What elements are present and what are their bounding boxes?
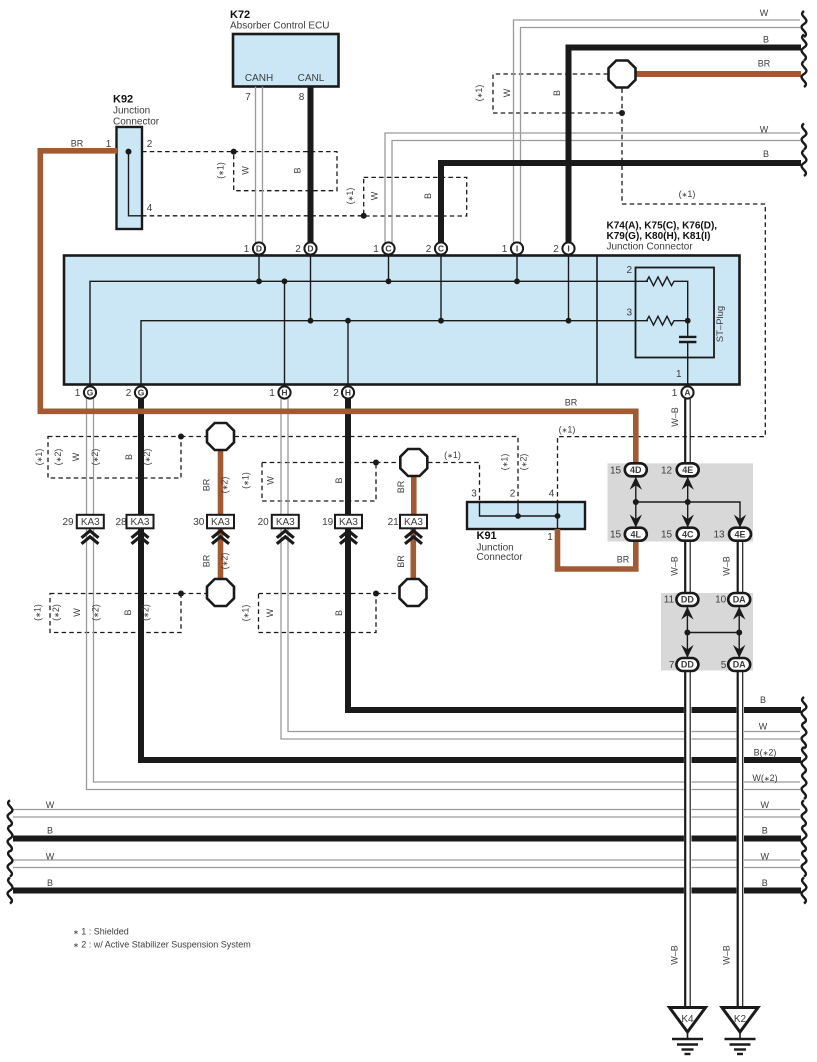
svg-text:(∗2): (∗2) [90, 449, 100, 466]
svg-text:20: 20 [258, 517, 270, 528]
shield dashed line from K92 pin 2 [142, 151, 234, 153]
svg-text:B: B [334, 477, 344, 483]
svg-text:3: 3 [626, 308, 632, 319]
svg-text:K92: K92 [113, 94, 133, 106]
svg-text:1: 1 [672, 388, 678, 399]
label rotated shield box I wires [474, 85, 562, 102]
svg-text:3: 3 [471, 489, 477, 500]
svg-text:15: 15 [610, 465, 622, 476]
svg-text:W–B: W–B [722, 945, 732, 965]
svg-text:2: 2 [126, 388, 132, 399]
svg-text:B: B [123, 609, 133, 615]
svg-text:W: W [46, 800, 55, 810]
svg-text:A: A [684, 388, 690, 398]
svg-text:B: B [763, 149, 769, 159]
svg-text:(∗1): (∗1) [34, 449, 44, 466]
ECU K72 Absorber Control ECU [233, 34, 339, 87]
chevron arrows below KA3 connectors [82, 531, 423, 544]
svg-text:2: 2 [553, 244, 559, 255]
svg-text:B: B [47, 878, 53, 888]
label rotated G upper box [34, 449, 152, 466]
svg-text:19: 19 [322, 517, 334, 528]
svg-text:B: B [762, 826, 768, 836]
svg-text:1: 1 [75, 388, 81, 399]
svg-text:W–B: W–B [670, 556, 680, 576]
svg-text:DA: DA [733, 595, 746, 605]
svg-text:(∗2): (∗2) [51, 604, 61, 621]
svg-text:Junction Connector: Junction Connector [607, 242, 694, 253]
pin stub H2 [347, 321, 349, 387]
wire B from 2H down to B bus right edge [348, 399, 801, 710]
svg-text:(∗1): (∗1) [33, 604, 43, 621]
wire W-B from 1A to 4E(12) [685, 399, 690, 463]
svg-text:11: 11 [664, 595, 675, 606]
wire B from 2C to right edge [441, 163, 801, 243]
svg-text:BR: BR [202, 478, 212, 491]
wire BR octagon to 21 KA3 [411, 477, 417, 516]
terminal ovals DD DA [676, 593, 750, 671]
wire BR main from K92 pin1 around left and to 4D [40, 151, 636, 464]
wire B from 2I to right edge [569, 48, 802, 243]
svg-text:G: G [87, 388, 94, 398]
svg-text:B: B [762, 878, 768, 888]
bottom bus B left to right [13, 836, 801, 842]
svg-text:BR: BR [617, 555, 630, 565]
svg-text:(∗2): (∗2) [141, 604, 151, 621]
arrow up into 11 DD [681, 607, 693, 620]
shield dashed box around CANH/CANL wires (*1) [234, 152, 337, 191]
capacitor of ST-Plug [687, 321, 689, 336]
shield octagon H lower [400, 579, 427, 606]
arrow up into 4D [630, 477, 642, 490]
wire inside K92 pin1/2 to pin4 [129, 152, 143, 216]
shield octagon top right [609, 61, 636, 88]
junction connector K92 [117, 127, 143, 229]
ground K2 [722, 1008, 758, 1055]
svg-text:30: 30 [193, 517, 205, 528]
svg-text:4L: 4L [631, 529, 642, 539]
wire B from 2G down to B(*2) bus right edge [141, 399, 801, 761]
wire W CANH K72 pin7 to 1D [256, 87, 263, 243]
svg-text:1: 1 [269, 388, 275, 399]
svg-text:(∗1): (∗1) [241, 605, 251, 622]
label rotated shield box C wires [345, 188, 433, 205]
pin stub I2 [568, 255, 570, 321]
svg-text:21: 21 [388, 517, 400, 528]
svg-text:KA3: KA3 [211, 517, 230, 528]
pin stub D2 [310, 255, 312, 321]
K91 internal wires pins 3,2,4 to 1 [480, 502, 558, 529]
svg-text:DD: DD [681, 660, 694, 670]
label bottom pin numbers [75, 388, 678, 399]
wire W from 1H down to W bus right edge [281, 399, 800, 739]
shield drain dashed path from octagon to K91 pin 4 [558, 89, 766, 503]
arrow down into 4E(13) [734, 515, 746, 528]
shield octagon G lower [207, 579, 234, 606]
svg-text:1: 1 [547, 532, 553, 543]
svg-text:B: B [124, 454, 134, 460]
shield dashed box around H-pin wires upper (*1) [262, 463, 376, 502]
svg-text:BR: BR [396, 480, 406, 493]
svg-text:W: W [760, 800, 769, 810]
label KA3 numbers [62, 517, 399, 528]
shield dashed line G box to octagon and on to K91 pin 2 [181, 436, 207, 438]
svg-text:W: W [760, 125, 769, 135]
svg-text:2: 2 [626, 265, 632, 276]
shield octagon H upper [400, 449, 427, 476]
svg-text:Connector: Connector [113, 117, 160, 128]
label top pin numbers [244, 244, 560, 255]
svg-text:(∗1): (∗1) [444, 450, 461, 460]
wire W-B from 4E(13) to 10 DA [738, 541, 743, 594]
svg-text:BR: BR [396, 555, 406, 568]
svg-text:B: B [334, 610, 344, 616]
svg-text:W: W [241, 166, 251, 175]
svg-text:W: W [370, 191, 380, 200]
svg-text:(∗2): (∗2) [220, 477, 230, 494]
svg-text:W: W [46, 852, 55, 862]
shield dashed line lower G box to octagon [181, 593, 207, 595]
resistor R term 2 [647, 277, 688, 321]
svg-text:4: 4 [147, 203, 153, 214]
wire W-B from 5 DA to ground K2 [738, 671, 743, 1007]
svg-text:1: 1 [502, 244, 508, 255]
shield dashed line from K92 pin 4 [142, 215, 364, 217]
svg-text:CANH: CANH [245, 73, 273, 84]
svg-text:W–B: W–B [670, 945, 680, 965]
wire B CANL K72 pin8 to 2D [308, 87, 314, 243]
svg-text:W–B: W–B [722, 556, 732, 576]
svg-text:1: 1 [676, 369, 682, 380]
svg-text:4E: 4E [734, 529, 745, 539]
svg-text:(∗1): (∗1) [345, 188, 355, 205]
shield dashed box around C-pin wires (*1) [364, 177, 467, 216]
svg-text:K91: K91 [477, 530, 497, 542]
svg-text:7: 7 [669, 660, 675, 671]
svg-text:B: B [552, 90, 562, 96]
arrow up into 10 DA [733, 607, 745, 620]
connector KA3 x29 [77, 515, 427, 529]
svg-text:C: C [438, 244, 444, 254]
svg-text:4D: 4D [630, 465, 642, 475]
svg-text:Junction: Junction [113, 106, 150, 117]
divider line of ST-Plug section [596, 256, 598, 385]
svg-text:28: 28 [115, 517, 127, 528]
svg-text:1: 1 [373, 244, 379, 255]
svg-text:BR: BR [202, 554, 212, 567]
svg-text:(∗1): (∗1) [474, 85, 484, 102]
svg-text:D: D [307, 244, 313, 254]
svg-text:B: B [293, 167, 303, 173]
svg-text:BR: BR [565, 398, 578, 408]
wire BR from top octagon to right edge [634, 71, 801, 77]
svg-text:W: W [265, 608, 275, 617]
svg-text:KA3: KA3 [81, 517, 100, 528]
wire W from 1I to right edge [514, 20, 801, 243]
svg-text:2: 2 [426, 244, 432, 255]
svg-text:5: 5 [721, 660, 727, 671]
wire capacitor to pin 1A [687, 343, 689, 387]
shield octagon G upper [207, 423, 234, 450]
internal CANL line (G2-D2-H2-C2-I2 to resistor 3) [141, 321, 648, 387]
svg-text:DD: DD [681, 595, 694, 605]
svg-text:H: H [281, 388, 287, 398]
wire break symbols left edge [8, 800, 13, 903]
svg-text:BR: BR [758, 59, 771, 69]
arrow down into 5 DA [733, 645, 745, 658]
node K92 pin 1-2 junction [126, 149, 132, 155]
svg-text:I: I [567, 244, 569, 254]
svg-text:(∗1): (∗1) [679, 189, 696, 199]
svg-text:DA: DA [733, 660, 746, 670]
svg-text:I: I [516, 244, 518, 254]
arrow up into 4E [682, 477, 694, 490]
svg-text:C: C [385, 244, 391, 254]
svg-text:29: 29 [62, 517, 74, 528]
wires and arrows inside gray connector block 2 [687, 606, 739, 658]
label rotated H lower box [241, 605, 345, 622]
svg-text:W: W [266, 476, 276, 485]
label right edge top wires [758, 8, 771, 159]
svg-text:KA3: KA3 [276, 517, 295, 528]
svg-text:K4: K4 [681, 1014, 694, 1025]
junction dots on dashed shield lines [178, 110, 625, 597]
svg-text:W: W [760, 852, 769, 862]
pin stub C1 [388, 255, 390, 282]
wire W-B from 7 DD to ground K4 [685, 671, 690, 1007]
shield dashed box around G-pin wires upper (*1)(*2) [48, 437, 181, 479]
pin stub I1 [516, 255, 518, 282]
svg-text:B: B [47, 826, 53, 836]
svg-text:H: H [345, 388, 351, 398]
svg-text:KA3: KA3 [131, 517, 150, 528]
svg-text:B: B [423, 193, 433, 199]
pin stub D1 [258, 255, 260, 282]
svg-text:K79(G), K80(H), K81(I): K79(G), K80(H), K81(I) [607, 231, 711, 242]
svg-text:1: 1 [106, 139, 112, 150]
svg-text:(∗2): (∗2) [142, 449, 152, 466]
svg-text:4: 4 [549, 489, 555, 500]
label rotated H upper box [241, 472, 345, 489]
nodes in K91 [515, 513, 521, 519]
svg-text:W: W [760, 8, 769, 18]
pin circles on junction box top [84, 242, 694, 398]
label W-B rotated [670, 407, 732, 965]
label right edge bottom buses [752, 695, 777, 888]
svg-text:4C: 4C [682, 529, 694, 539]
connector block shaded (4D/4E/4L/4C) [608, 463, 754, 541]
svg-text:(∗1): (∗1) [500, 454, 510, 471]
svg-text:KA3: KA3 [339, 517, 358, 528]
svg-text:W–B: W–B [670, 407, 680, 427]
svg-text:Connector: Connector [477, 552, 524, 563]
svg-text:B: B [760, 695, 766, 705]
svg-text:ST–Plug: ST–Plug [715, 306, 726, 342]
svg-text:(∗2): (∗2) [53, 449, 63, 466]
svg-text:G: G [138, 388, 145, 398]
arrow down into 4L [630, 515, 642, 528]
svg-text:15: 15 [661, 530, 673, 541]
svg-text:D: D [256, 244, 262, 254]
svg-text:Absorber Control ECU: Absorber Control ECU [230, 21, 329, 32]
svg-text:2: 2 [147, 139, 153, 150]
svg-text:∗ 2 : w/ Active Stabilizer Sus: ∗ 2 : w/ Active Stabilizer Suspension Sy… [73, 940, 251, 950]
svg-text:7: 7 [245, 92, 251, 103]
svg-text:W: W [759, 722, 768, 732]
bottom bus W left to right [13, 810, 800, 818]
nodes on internal lines [256, 278, 690, 323]
junction connector K74/K75/K76/K79/K80/K81 main box [64, 256, 740, 385]
svg-text:CANL: CANL [298, 73, 325, 84]
svg-text:(∗2): (∗2) [220, 553, 230, 570]
svg-text:K74(A), K75(C), K76(D),: K74(A), K75(C), K76(D), [607, 221, 718, 232]
svg-text:12: 12 [661, 465, 673, 476]
wire break symbols right edge [802, 11, 807, 904]
label rotated (*1)(*2) near K91 pin 2 [500, 454, 529, 471]
ground K4 [670, 1008, 706, 1055]
svg-text:2: 2 [295, 244, 301, 255]
shield dashed box around H wires lower [259, 594, 377, 633]
connector block shaded (DD/DA) [661, 593, 753, 671]
svg-text:KA3: KA3 [404, 517, 423, 528]
label rotated BR (*2) above 30 KA3 [202, 477, 407, 494]
wire W from 1C to right edge [385, 133, 800, 243]
shield dashed box around G wires lower [50, 594, 181, 633]
bottom bus B second [13, 888, 801, 894]
svg-text:(∗2): (∗2) [519, 454, 529, 471]
wire BR from K91 pin1 to 4L [558, 529, 636, 569]
shield dashed line H box to octagon and on to K91 pin 3 [376, 462, 400, 464]
svg-text:2: 2 [333, 388, 339, 399]
svg-text:2: 2 [510, 489, 516, 500]
label rotated shield box D wires [216, 162, 303, 179]
svg-text:(∗1): (∗1) [216, 162, 226, 179]
svg-text:W: W [71, 452, 81, 461]
svg-text:15: 15 [610, 530, 622, 541]
bottom bus W second [13, 860, 800, 868]
svg-text:W: W [502, 88, 512, 97]
wire W from 1G down to W(*2) bus right edge [87, 399, 801, 790]
wire W-B from 4C to 11 DD [685, 541, 690, 594]
svg-text:10: 10 [715, 595, 727, 606]
label gray block pin numbers [610, 465, 727, 671]
arrow down into 4C [682, 515, 694, 528]
ST-Plug component box [636, 268, 715, 358]
shield dashed box around I-pin wires (*1) [493, 74, 622, 113]
svg-text:13: 13 [713, 530, 725, 541]
svg-text:8: 8 [299, 92, 305, 103]
svg-text:(∗2): (∗2) [91, 604, 101, 621]
svg-text:BR: BR [71, 139, 84, 149]
svg-text:W: W [72, 608, 82, 617]
svg-text:B: B [763, 35, 769, 45]
arrow down into 7 DD [681, 645, 693, 658]
svg-text:1: 1 [244, 244, 250, 255]
terminal ovals 4D 4E 4L 4C 4E [625, 463, 751, 540]
pin circles on junction box bottom [84, 386, 96, 398]
svg-text:K72: K72 [230, 9, 250, 21]
resistor R term 3 [647, 316, 688, 325]
wire BR 30 KA3 to lower octagon [218, 529, 224, 580]
svg-text:(∗1): (∗1) [559, 425, 576, 435]
svg-text:K2: K2 [734, 1014, 747, 1025]
label rotated G lower box [33, 604, 151, 621]
label rotated BR (*2) below 30 KA3 [202, 553, 407, 570]
wire BR 21 KA3 to lower octagon [410, 529, 416, 580]
pin stub C2 [440, 255, 442, 321]
junction connector K91 [467, 502, 585, 529]
wire BR octagon to 30 KA3 [218, 451, 224, 516]
svg-text:4E: 4E [682, 465, 693, 475]
pin stub H1 [284, 281, 286, 386]
svg-text:∗ 1 : Shielded: ∗ 1 : Shielded [73, 927, 129, 937]
label left edge buses [46, 800, 55, 888]
svg-text:(∗1): (∗1) [241, 472, 251, 489]
wires and arrows inside gray connector block 1 [636, 476, 740, 528]
shield dashed line lower H box to octagon [376, 593, 400, 595]
internal CANH line (G1-D1-H1-C1-I1 to resistor 2) [90, 281, 648, 386]
